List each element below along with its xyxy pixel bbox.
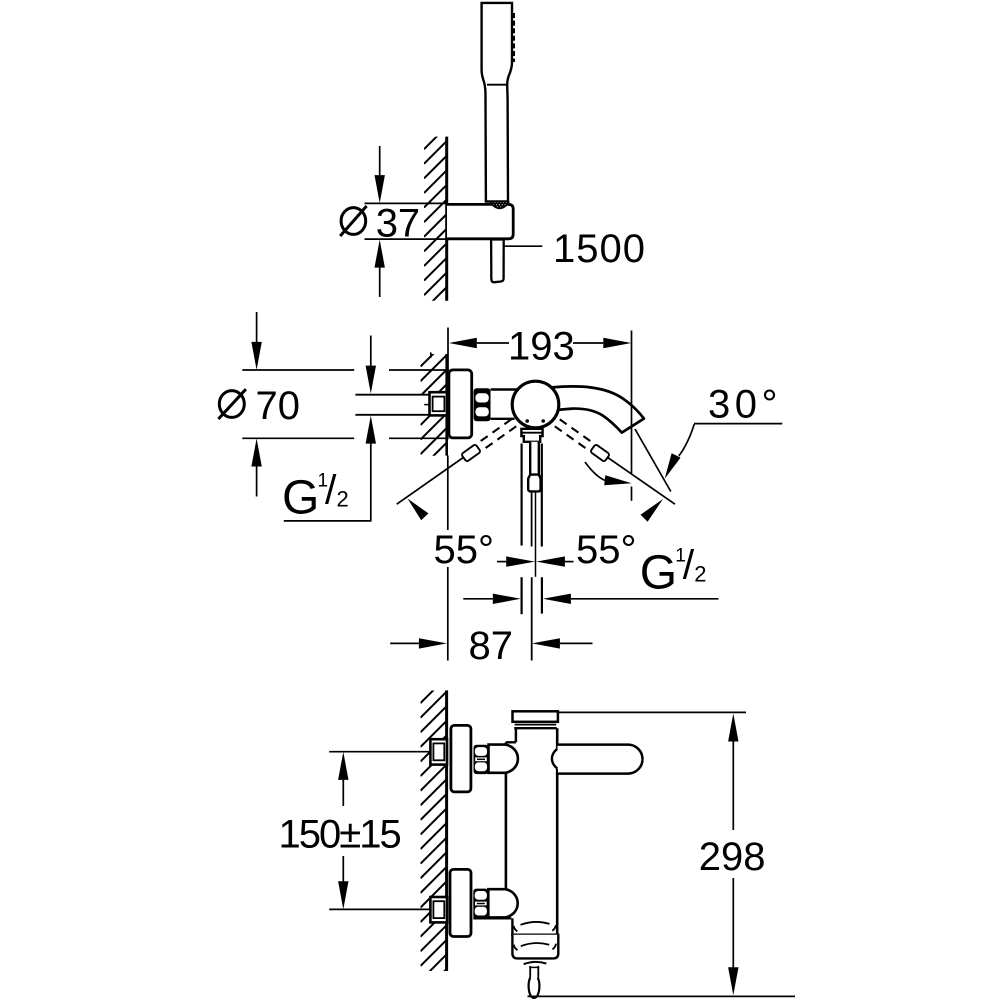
lower connector (side) <box>488 889 517 917</box>
svg-text:30°: 30° <box>708 383 782 427</box>
dimension D70 label <box>218 384 300 428</box>
shower hose <box>491 240 504 283</box>
dimension D70 extension lines <box>242 369 354 371</box>
55 left arc arrow <box>408 499 429 521</box>
wall socket (front view) <box>430 392 448 415</box>
svg-text:1500: 1500 <box>553 227 646 271</box>
55 right arc arrow <box>641 499 664 522</box>
connection nut (front) <box>474 388 491 421</box>
svg-text:55°: 55° <box>434 528 495 572</box>
main body fill (side) <box>507 730 556 934</box>
hand shower head and handle <box>482 3 512 202</box>
dimension 150+-15 extension lines <box>329 751 430 753</box>
wall line (bottom) <box>445 690 448 971</box>
svg-text:87: 87 <box>469 624 514 668</box>
shower head joint line <box>487 84 506 86</box>
rotated lever paddle outline (right) <box>590 444 610 462</box>
rotated lever dashes (right 55) <box>560 419 596 444</box>
wall face thin extension (87 etc) <box>447 456 449 531</box>
rotated lever paddle outline (left) <box>461 444 481 462</box>
lower nut (side) <box>473 889 488 919</box>
shower inlet cone crosshatch <box>491 202 509 209</box>
dimension 298 extension lines <box>559 711 747 713</box>
svg-text:193: 193 <box>508 324 575 368</box>
body neck left edge (side) <box>515 728 518 742</box>
30deg second arc arrow at vertical line <box>585 462 605 481</box>
lever stem (front) <box>530 442 539 475</box>
lower flange (side) <box>450 869 471 936</box>
G1/2 right label <box>640 542 707 600</box>
svg-text:G: G <box>640 546 677 599</box>
outlet G1/2 dimension arrows <box>463 598 493 600</box>
supply pipe G1/2 <box>355 394 432 416</box>
shower outlet pipe lines (front) <box>520 444 522 546</box>
dimension 193 extension line (left/wall) <box>447 328 449 372</box>
hose drop end <box>529 978 540 998</box>
outlet cup top line <box>511 933 559 936</box>
center tick above flange <box>430 352 432 358</box>
dimension 193 extension line (right/spout) <box>631 331 633 474</box>
body right edge (side) <box>556 728 559 749</box>
dimension D37 label <box>340 201 420 245</box>
dimension D70 arrows <box>256 312 258 344</box>
svg-text:37: 37 <box>376 201 421 245</box>
svg-text:G: G <box>282 471 319 524</box>
spout <box>552 386 644 432</box>
rotated lever line (right) <box>607 457 675 504</box>
dimension D37 extension lines <box>365 202 448 204</box>
30deg spout face reference line <box>635 429 671 492</box>
rotated lever dashes (left 55) <box>476 419 512 444</box>
G1/2 left label <box>282 467 349 525</box>
wall bracket for hand shower <box>447 204 513 238</box>
dimension 87 arrows <box>390 642 419 644</box>
outlet middle line / 87 extension <box>531 492 533 547</box>
lever (side view) <box>558 745 643 774</box>
outlet cup <box>512 935 558 959</box>
svg-text:2: 2 <box>694 562 706 587</box>
ball dots <box>525 419 529 423</box>
escutcheon flange D70 (front) <box>449 370 472 438</box>
upper connector (side) <box>489 745 518 773</box>
wall hatching (top) <box>424 111 447 324</box>
30deg label underline <box>694 423 782 425</box>
body collar rings (side) <box>515 724 557 726</box>
upper flange (side) <box>451 725 471 792</box>
upper wall socket (side) <box>430 739 447 764</box>
svg-text:/: / <box>683 542 695 588</box>
spray face dashed edge <box>512 13 515 62</box>
dimension 193 line and arrows <box>449 338 477 348</box>
wall line (top) <box>445 137 448 301</box>
upper nut (side) <box>474 745 489 774</box>
svg-text:/: / <box>325 467 337 513</box>
lever ball joint cup <box>552 749 557 769</box>
30deg arc with arrow <box>679 424 694 456</box>
hose collar arc <box>524 962 547 964</box>
cartridge ball <box>512 381 559 428</box>
body bottom step <box>473 917 511 919</box>
supply G1/2 arrows <box>370 336 372 368</box>
body left edge (side) <box>505 742 508 890</box>
center line <box>535 493 537 577</box>
hose neck <box>529 966 531 978</box>
supply center line dash <box>424 404 433 406</box>
dimension D37 arrows <box>379 146 381 178</box>
body bottom dome arcs <box>521 922 550 925</box>
dimension 298 arrows <box>728 714 738 742</box>
svg-text:150±15: 150±15 <box>279 813 401 857</box>
lever paddle (front) <box>528 475 540 492</box>
rotated lever line (left) <box>397 457 464 504</box>
svg-text:55°: 55° <box>576 528 637 572</box>
body cap (side) <box>513 711 558 722</box>
dimension 1500 leader <box>505 245 543 247</box>
lever collar (front) <box>521 429 542 442</box>
svg-text:298: 298 <box>699 835 766 879</box>
svg-text:70: 70 <box>256 384 301 428</box>
wall hatching (middle) <box>421 326 448 484</box>
G1/2 left label underline <box>284 520 372 522</box>
wall hatching (bottom) <box>421 663 447 1000</box>
lower wall socket (side) <box>430 897 447 922</box>
svg-text:2: 2 <box>337 487 349 512</box>
wall line (middle) <box>445 354 448 456</box>
dimension 150+-15 arrows <box>338 752 348 780</box>
valve body (front) <box>491 390 518 419</box>
55deg bowtie arrows at center line <box>497 561 506 563</box>
